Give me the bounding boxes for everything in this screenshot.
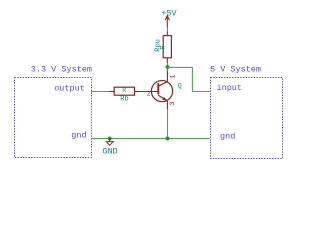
- svg-text:Q: Q: [178, 82, 182, 89]
- ground symbol: [106, 139, 113, 146]
- svg-text:Rb: Rb: [120, 96, 128, 104]
- svg-text:5 V System: 5 V System: [210, 65, 261, 75]
- svg-text:gnd: gnd: [220, 131, 235, 141]
- svg-text:1: 1: [169, 75, 176, 79]
- junction emitter gnd: [166, 137, 170, 141]
- junction gnd symbol: [108, 137, 112, 141]
- svg-text:input: input: [217, 83, 243, 93]
- svg-text:output: output: [54, 83, 85, 93]
- resistor Rpu: [163, 32, 171, 64]
- wire +5V to Rpu: [167, 28, 169, 33]
- wire Rpu to junction: [167, 63, 169, 71]
- svg-text:R: R: [122, 87, 126, 94]
- wire gnd row: [91, 138, 210, 140]
- svg-text:2: 2: [147, 91, 151, 98]
- wire emitter down: [167, 110, 169, 139]
- resistor Rb: [110, 87, 141, 95]
- box 5V system: [211, 78, 283, 159]
- junction collector node: [166, 65, 170, 69]
- svg-text:3: 3: [169, 101, 176, 105]
- wire output to Rb: [91, 91, 110, 93]
- svg-text:R: R: [160, 46, 167, 50]
- svg-text:+5V: +5V: [161, 9, 177, 19]
- transistor Q1: [140, 70, 173, 110]
- wire junction to input: [168, 67, 210, 91]
- svg-text:GND: GND: [102, 147, 117, 157]
- power +5V symbol: [165, 16, 169, 28]
- svg-text:gnd: gnd: [71, 131, 86, 141]
- box 3.3V system: [15, 78, 92, 158]
- svg-text:3.3 V System: 3.3 V System: [31, 65, 92, 75]
